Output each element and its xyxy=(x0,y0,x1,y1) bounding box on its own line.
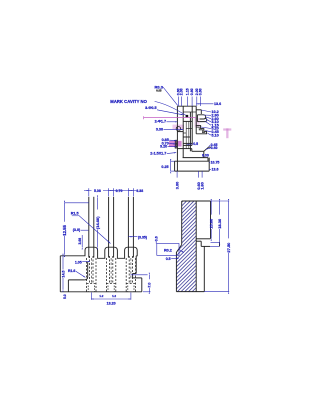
svg-text:3.20: 3.20 xyxy=(160,144,167,148)
svg-text:(14.60): (14.60) xyxy=(95,216,100,229)
svg-text:0.60: 0.60 xyxy=(190,88,194,95)
svg-text:3.68: 3.68 xyxy=(78,238,82,245)
svg-text:1.2: 1.2 xyxy=(99,294,103,298)
svg-text:10.75: 10.75 xyxy=(211,161,220,165)
svg-text:2-1.5X1.7: 2-1.5X1.7 xyxy=(150,152,166,156)
svg-text:0.6: 0.6 xyxy=(155,236,159,241)
svg-text:0.25: 0.25 xyxy=(161,165,168,169)
svg-text:MARK CAVITY NO: MARK CAVITY NO xyxy=(110,99,147,104)
svg-text:R1.5: R1.5 xyxy=(71,212,79,216)
svg-text:1.15: 1.15 xyxy=(186,88,190,95)
svg-text:3-Φ0.5: 3-Φ0.5 xyxy=(145,106,156,110)
svg-text:1.05: 1.05 xyxy=(75,260,82,264)
svg-text:13.6: 13.6 xyxy=(214,102,221,106)
svg-text:3.00: 3.00 xyxy=(175,182,179,189)
svg-text:3.38: 3.38 xyxy=(136,189,143,193)
svg-text:0.30: 0.30 xyxy=(202,154,209,158)
svg-text:18.30: 18.30 xyxy=(217,218,222,229)
svg-text:15.60: 15.60 xyxy=(209,218,214,229)
svg-text:2-Φ1.7: 2-Φ1.7 xyxy=(155,119,166,123)
svg-text:13.20: 13.20 xyxy=(107,302,116,306)
svg-text:5.08: 5.08 xyxy=(94,189,101,193)
svg-text:7.0: 7.0 xyxy=(148,283,152,288)
svg-text:0.5: 0.5 xyxy=(193,142,198,146)
svg-text:0.40: 0.40 xyxy=(211,146,218,150)
svg-text:(3.0): (3.0) xyxy=(73,228,81,232)
svg-text:0.60: 0.60 xyxy=(199,88,203,95)
svg-text:(3.35): (3.35) xyxy=(138,235,147,239)
svg-text:0.5: 0.5 xyxy=(166,257,171,261)
svg-text:0.70: 0.70 xyxy=(116,189,123,193)
svg-text:14.5: 14.5 xyxy=(61,271,65,278)
svg-text:5.0: 5.0 xyxy=(63,294,67,299)
svg-text:R1.6: R1.6 xyxy=(68,269,75,273)
svg-text:1.2: 1.2 xyxy=(112,294,116,298)
svg-text:1.60: 1.60 xyxy=(200,182,204,189)
svg-text:12.55: 12.55 xyxy=(62,224,67,235)
svg-text:13.6: 13.6 xyxy=(212,168,219,172)
svg-text:5.10: 5.10 xyxy=(211,133,218,137)
svg-text:2.00: 2.00 xyxy=(180,88,184,95)
svg-text:27.50: 27.50 xyxy=(226,242,231,253)
svg-text:R0.2: R0.2 xyxy=(164,248,172,252)
svg-text:0.05: 0.05 xyxy=(156,89,162,93)
svg-text:3.30: 3.30 xyxy=(156,127,163,131)
